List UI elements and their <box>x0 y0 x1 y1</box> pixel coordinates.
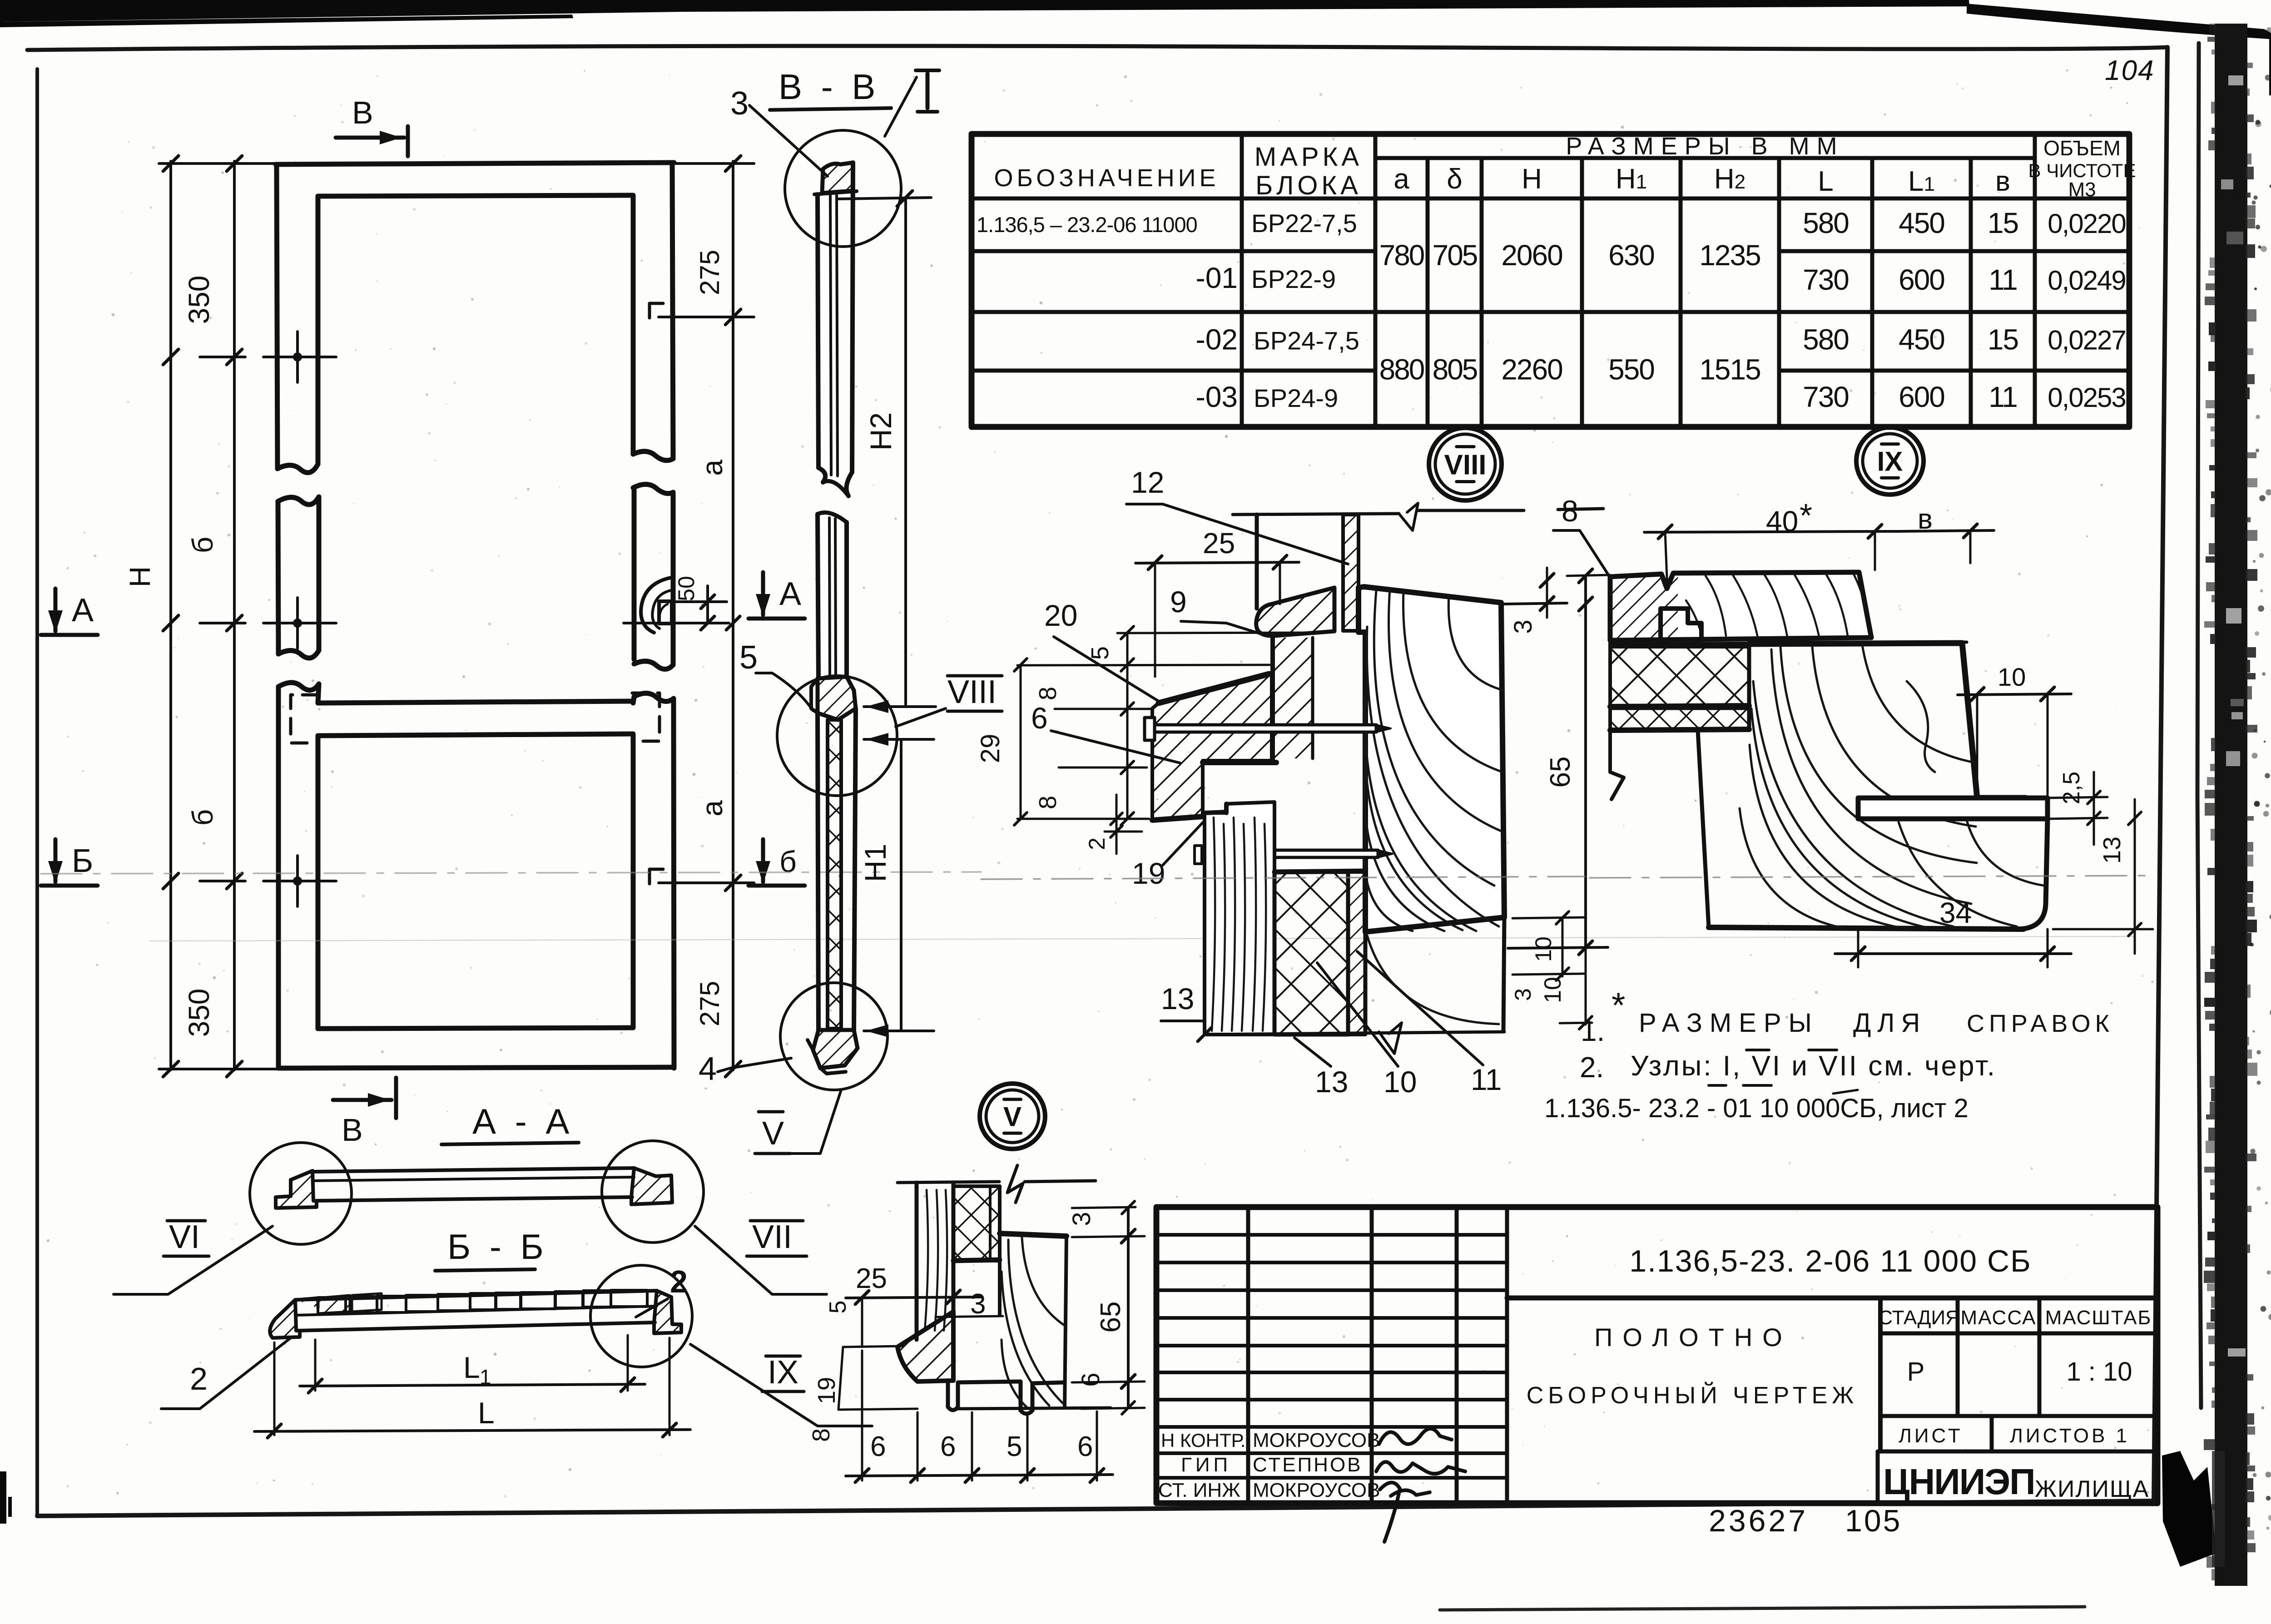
insulation 10 (cross-hatch) <box>1274 872 1348 1035</box>
B-B lower plank profile (after break) <box>818 513 847 522</box>
dim 2,5 <box>2048 797 2107 798</box>
svg-text:10: 10 <box>1998 663 2026 691</box>
middle rail dashed tenons <box>291 695 318 743</box>
svg-text:2: 2 <box>190 1361 208 1396</box>
Б-Б hatched right end <box>654 1291 681 1333</box>
Б-Б hatched left end <box>270 1300 300 1338</box>
main wood block <box>1000 1233 1066 1236</box>
svg-text:a: a <box>1393 163 1409 195</box>
svg-text:104: 104 <box>2105 55 2154 86</box>
insulation cross-hatch block <box>953 1186 1000 1261</box>
svg-text:580: 580 <box>1803 207 1849 239</box>
svg-text:ДЛЯ: ДЛЯ <box>1853 1008 1926 1038</box>
left slot wall <box>1255 515 1259 609</box>
svg-text:5: 5 <box>825 1301 851 1314</box>
step-block detail inside plank <box>1661 609 1701 639</box>
right stile outer edge segments <box>672 163 674 1068</box>
A-A left end block <box>276 1171 317 1208</box>
svg-text:МАРКА: МАРКА <box>1255 142 1363 172</box>
svg-text:25: 25 <box>1203 527 1235 559</box>
svg-text:5: 5 <box>1086 646 1114 660</box>
scan: top black bar <box>0 0 1969 22</box>
svg-text:8: 8 <box>1034 796 1061 809</box>
svg-text:0,0227: 0,0227 <box>2048 325 2126 356</box>
scan: left-bottom edge marks <box>0 1471 6 1524</box>
node VIII circle label <box>1429 428 1502 500</box>
svg-text:3: 3 <box>1510 988 1536 1001</box>
dim extension + 10 bottom-left <box>1567 575 1610 576</box>
B-B upper plank profile <box>818 194 825 482</box>
section marker B top <box>336 136 404 140</box>
lower extension of stile block <box>1365 917 1504 1031</box>
svg-text:2260: 2260 <box>1501 353 1562 386</box>
svg-text:А: А <box>779 576 801 612</box>
svg-text:1.136.5- 23.2 - 01 10 000СБ, л: 1.136.5- 23.2 - 01 10 000СБ, лист 2 <box>1544 1094 1969 1123</box>
svg-text:L: L <box>463 1351 480 1384</box>
label V with leader (bottom of B-B) <box>755 1090 841 1154</box>
svg-text:6: 6 <box>870 1431 886 1462</box>
svg-text:23627: 23627 <box>1709 1504 1808 1538</box>
left dim chain 5/8/29/8/2 <box>1117 633 1317 633</box>
svg-text:1.: 1. <box>1581 1015 1605 1047</box>
left grid rows <box>1156 1233 1507 1237</box>
svg-text:*: * <box>1612 985 1625 1025</box>
scan: bottom separated line <box>1440 1607 2085 1610</box>
A-A detail circles <box>250 1143 352 1244</box>
screw top <box>1145 718 1155 740</box>
svg-text:Н: Н <box>1522 163 1542 195</box>
svg-text:10: 10 <box>1531 936 1556 962</box>
svg-text:МОКРОУСОВ: МОКРОУСОВ <box>1253 1429 1380 1451</box>
svg-text:730: 730 <box>1803 381 1849 413</box>
thin seam under plank <box>1610 642 1967 644</box>
svg-text:6: 6 <box>1031 701 1048 735</box>
svg-text:275: 275 <box>694 981 725 1026</box>
svg-text:1.136,5-23. 2-06 11 000 СБ: 1.136,5-23. 2-06 11 000 СБ <box>1629 1244 2032 1278</box>
svg-text:34: 34 <box>1939 896 1972 929</box>
svg-text:4: 4 <box>699 1051 717 1087</box>
section marker Б left <box>41 884 98 888</box>
H1 dimension <box>864 738 934 741</box>
svg-text:2060: 2060 <box>1501 239 1562 272</box>
svg-text:550: 550 <box>1608 353 1654 386</box>
wedge piece 20 (frame jamb) <box>1152 674 1272 820</box>
svg-text:Н2: Н2 <box>864 412 897 451</box>
svg-text:-03: -03 <box>1196 381 1238 413</box>
svg-text:1235: 1235 <box>1699 239 1760 272</box>
glued panel strip with cross hatch, down to bottom circle <box>828 720 841 1029</box>
lock centreline <box>624 622 729 624</box>
svg-text:10: 10 <box>1383 1065 1417 1099</box>
svg-text:Н КОНТР.: Н КОНТР. <box>1161 1430 1245 1451</box>
section marker A right <box>749 617 805 621</box>
svg-text:350: 350 <box>183 276 215 324</box>
main area: doc number cell <box>1507 1296 2157 1301</box>
TABLE: data table top right <box>972 134 2129 427</box>
svg-text:*: * <box>1800 498 1812 534</box>
svg-text:450: 450 <box>1899 207 1944 239</box>
svg-text:Б - Б: Б - Б <box>447 1227 548 1267</box>
svg-text:H: H <box>124 566 156 587</box>
svg-text:29: 29 <box>976 734 1005 763</box>
svg-text:М3: М3 <box>2068 178 2096 201</box>
svg-text:-01: -01 <box>1196 262 1238 294</box>
svg-text:В ЧИСТОТЕ: В ЧИСТОТЕ <box>2028 160 2136 181</box>
dim L1 <box>314 1340 317 1391</box>
svg-text:СТЕПНОВ: СТЕПНОВ <box>1253 1454 1363 1476</box>
svg-text:600: 600 <box>1899 263 1944 296</box>
door elevation: outer outline <box>276 163 674 164</box>
svg-text:19: 19 <box>1132 857 1165 890</box>
list row <box>1880 1414 2157 1418</box>
screw bottom <box>1203 850 1378 857</box>
small corner brackets in right stile <box>650 303 663 318</box>
svg-text:6: 6 <box>1077 1431 1093 1462</box>
svg-text:a: a <box>696 800 729 817</box>
svg-text:1.136,5 ‒ 23.2-06 11000: 1.136,5 ‒ 23.2-06 11000 <box>977 213 1197 237</box>
svg-text:3: 3 <box>1067 1212 1096 1226</box>
svg-text:6: 6 <box>1076 1372 1105 1386</box>
svg-text:б: б <box>186 809 219 826</box>
svg-text:VII: VII <box>752 1219 792 1255</box>
svg-text:1: 1 <box>480 1365 491 1389</box>
svg-text:СТАДИЯ: СТАДИЯ <box>1878 1307 1960 1329</box>
svg-text:1 : 10: 1 : 10 <box>2066 1357 2132 1386</box>
svg-text:600: 600 <box>1899 381 1944 413</box>
svg-text:ГИП: ГИП <box>1181 1454 1231 1476</box>
svg-text:БЛОКА: БЛОКА <box>1255 171 1362 200</box>
svg-text:65: 65 <box>1545 757 1576 788</box>
lock dome detail on right stile <box>641 578 671 633</box>
svg-text:15: 15 <box>1988 323 2018 356</box>
svg-text:19: 19 <box>813 1377 840 1404</box>
piece 9: rounded cap <box>1256 588 1334 636</box>
dim 65 right (shared with IX) <box>1584 576 1587 947</box>
top plank (architrave) <box>1610 572 1871 640</box>
vertical板 19 (wood strip, vertical grain) <box>1205 802 1274 1035</box>
svg-text:11: 11 <box>1988 381 2017 413</box>
svg-text:ПОЛОТНО: ПОЛОТНО <box>1594 1323 1792 1352</box>
svg-text:11: 11 <box>1988 263 2017 296</box>
svg-text:ЛИСТ: ЛИСТ <box>1899 1425 1963 1447</box>
svg-text:в: в <box>1995 166 2010 197</box>
centre marks on left stile <box>263 356 336 358</box>
svg-text:630: 630 <box>1608 239 1654 272</box>
svg-text:0,0220: 0,0220 <box>2048 208 2126 239</box>
svg-text:СТ. ИНЖ: СТ. ИНЖ <box>1158 1479 1240 1501</box>
label VIII with leader <box>896 674 1002 727</box>
leader from node I to circle <box>885 77 917 136</box>
svg-text:А: А <box>72 592 94 629</box>
svg-text:Узлы: I, VI и VII см. черт.: Узлы: I, VI и VII см. черт. <box>1631 1050 1997 1082</box>
title block outer <box>1156 1207 2157 1503</box>
svg-text:1515: 1515 <box>1699 353 1760 386</box>
left stile break caps <box>278 464 318 473</box>
svg-text:0,0249: 0,0249 <box>2048 265 2126 296</box>
Б-Б bar profile with battens <box>296 1291 657 1300</box>
section marker Б right <box>749 884 805 888</box>
section marker B bottom <box>333 1098 392 1102</box>
bottom base line <box>1205 1032 1504 1035</box>
svg-text:СПРАВОК: СПРАВОК <box>1967 1010 2114 1037</box>
wall wood strip (vertical grain) <box>915 1183 919 1340</box>
svg-text:450: 450 <box>1899 323 1944 356</box>
svg-text:2.: 2. <box>1580 1051 1604 1084</box>
svg-text:3: 3 <box>1508 619 1537 634</box>
svg-text:Р: Р <box>1907 1357 1925 1386</box>
svg-text:МОКРОУСОВ: МОКРОУСОВ <box>1253 1479 1380 1501</box>
svg-text:3: 3 <box>970 1288 986 1320</box>
dim 13 <box>2134 799 2136 954</box>
svg-text:65: 65 <box>1095 1302 1126 1333</box>
svg-text:350: 350 <box>183 989 215 1037</box>
bottom tabs and base line <box>917 1381 1065 1414</box>
svg-text:105: 105 <box>1845 1504 1902 1538</box>
section marker A left <box>41 633 98 637</box>
V top line with break arrow <box>897 1182 999 1183</box>
glazing bead (2) with rounded corner <box>1858 798 2048 819</box>
drawing frame <box>35 69 39 1516</box>
svg-text:2: 2 <box>670 1264 688 1299</box>
scan: bottom-right dark blob <box>2162 1451 2216 1567</box>
svg-text:a: a <box>696 460 729 476</box>
svg-text:L: L <box>478 1396 495 1430</box>
svg-text:2,5: 2,5 <box>2058 772 2085 804</box>
svg-text:МАССА: МАССА <box>1961 1307 2037 1329</box>
svg-text:25: 25 <box>856 1263 887 1294</box>
svg-text:ЦНИИЭП: ЦНИИЭП <box>1883 1461 2035 1502</box>
svg-text:13: 13 <box>2098 837 2126 864</box>
faint axis line across IX <box>1590 876 2153 878</box>
svg-text:РАЗМЕРЫ: РАЗМЕРЫ <box>1639 1008 1819 1038</box>
svg-text:БР24-7,5: БР24-7,5 <box>1254 327 1359 355</box>
firm cell <box>1878 1450 2157 1454</box>
svg-text:50: 50 <box>674 576 699 601</box>
svg-text:Н1: Н1 <box>858 844 892 882</box>
label VI <box>114 1219 273 1294</box>
bottom detail circle (node 4 / V) <box>780 983 888 1090</box>
svg-text:VIII: VIII <box>1444 449 1486 480</box>
door elevation: middle (lock) rail <box>318 701 632 703</box>
right dimension line <box>732 161 734 1070</box>
svg-text:VIII: VIII <box>947 674 997 710</box>
main door-stile block <box>1359 587 1504 932</box>
svg-text:V: V <box>762 1115 784 1152</box>
svg-text:б: б <box>186 537 219 554</box>
svg-text:В: В <box>352 95 373 130</box>
Б-Б right detail circle <box>590 1265 692 1367</box>
door elevation: top rail bottom edge <box>318 195 632 196</box>
pieces inside mid circle <box>818 677 856 720</box>
dim L <box>273 1342 276 1435</box>
label IX + leader <box>690 1344 872 1426</box>
A-A bar profile <box>313 1168 634 1172</box>
dim 3 right top <box>1504 603 1567 604</box>
svg-text:V: V <box>1003 1102 1021 1132</box>
left stile inner edge segments <box>318 196 319 1029</box>
svg-text:5: 5 <box>739 639 758 676</box>
scan: right binding band <box>2197 43 2201 1408</box>
svg-text:6: 6 <box>940 1431 956 1462</box>
svg-text:0,0253: 0,0253 <box>2048 382 2126 413</box>
svg-text:IX: IX <box>1877 446 1903 477</box>
left stile outer edge segments <box>277 164 278 1068</box>
svg-text:В: В <box>342 1112 363 1148</box>
main stile block <box>1749 643 2026 798</box>
svg-text:805: 805 <box>1433 353 1477 386</box>
faint axis line across VIII <box>981 876 1585 879</box>
svg-text:L: L <box>1818 166 1833 197</box>
svg-text:IX: IX <box>768 1354 798 1391</box>
svg-text:8: 8 <box>808 1428 835 1442</box>
svg-text:МАСШТАБ: МАСШТАБ <box>2045 1307 2152 1329</box>
svg-text:780: 780 <box>1379 239 1424 272</box>
svg-text:8: 8 <box>1562 494 1578 528</box>
node V circle label <box>980 1084 1045 1149</box>
top cap: hatched cross-section piece <box>822 163 853 193</box>
detail circle (node 3 / I) top of B-B <box>785 130 901 247</box>
right stile break caps <box>633 451 673 494</box>
nail 12 (vertical hatched pin) <box>1343 515 1359 631</box>
left dimension lines <box>169 161 172 1070</box>
door elevation: bottom rail top edge <box>318 1028 632 1029</box>
left edge with break <box>1610 640 1624 799</box>
H2 dimension <box>838 198 931 199</box>
svg-text:-02: -02 <box>1196 323 1238 356</box>
insulation bands (cross-hatch) <box>1610 647 1749 706</box>
svg-text:VI: VI <box>169 1219 200 1255</box>
svg-text:9: 9 <box>1170 585 1187 619</box>
svg-text:730: 730 <box>1803 263 1849 296</box>
mid detail circle (node 5 / VIII) <box>777 676 897 796</box>
svg-text:13: 13 <box>1161 982 1194 1015</box>
label VII <box>695 1219 827 1294</box>
svg-text:ЛИСТОВ 1: ЛИСТОВ 1 <box>2010 1425 2130 1447</box>
svg-text:ОБОЗНАЧЕНИЕ: ОБОЗНАЧЕНИЕ <box>994 164 1219 192</box>
faint scan lines across elevation <box>41 872 981 874</box>
svg-text:В - В: В - В <box>778 67 880 107</box>
skirting wedge piece <box>897 1312 953 1381</box>
svg-text:БР22-7,5: БР22-7,5 <box>1251 209 1357 238</box>
svg-text:275: 275 <box>694 250 725 295</box>
svg-text:20: 20 <box>1044 599 1077 632</box>
svg-text:15: 15 <box>1988 207 2018 239</box>
dims 10 and 3 bottom right <box>1562 917 1564 976</box>
svg-text:705: 705 <box>1433 239 1477 272</box>
svg-text:3: 3 <box>730 85 749 122</box>
svg-text:δ: δ <box>1447 163 1463 195</box>
node IX circle label <box>1856 427 1924 495</box>
signatures (squiggles) <box>1379 1429 1452 1444</box>
strip 11 <box>1348 872 1365 1035</box>
svg-text:5: 5 <box>1007 1431 1022 1462</box>
left grid verticals <box>1246 1207 1250 1503</box>
right stile inner edge segments <box>633 195 634 1028</box>
svg-text:13: 13 <box>1315 1065 1348 1099</box>
svg-text:2: 2 <box>1084 837 1110 850</box>
Б-Б battens hatch pattern small pieces at left <box>318 1295 350 1313</box>
svg-text:8: 8 <box>1034 687 1061 700</box>
svg-text:БР24-9: БР24-9 <box>1254 384 1338 412</box>
svg-text:ЖИЛИЩА: ЖИЛИЩА <box>2035 1476 2149 1502</box>
svg-text:РАЗМЕРЫ В ММ: РАЗМЕРЫ В ММ <box>1566 133 1844 160</box>
svg-text:б: б <box>779 845 797 878</box>
node mark I (top right of B-B) <box>926 74 930 108</box>
svg-text:БР22-9: БР22-9 <box>1251 265 1336 293</box>
svg-text:10: 10 <box>1540 977 1566 1003</box>
svg-text:ОБЪЕМ: ОБЪЕМ <box>2043 136 2121 160</box>
A-A right end block <box>631 1168 672 1204</box>
svg-text:580: 580 <box>1803 323 1849 356</box>
svg-text:12: 12 <box>1131 465 1164 499</box>
svg-text:11: 11 <box>1471 1063 1502 1096</box>
svg-text:А - А: А - А <box>472 1101 574 1141</box>
stadia/massa/masshtab cells <box>1878 1298 1883 1451</box>
svg-text:СБОРОЧНЫЙ ЧЕРТЕЖ: СБОРОЧНЫЙ ЧЕРТЕЖ <box>1527 1382 1859 1409</box>
svg-text:880: 880 <box>1379 353 1424 386</box>
jamb upper part beside piece 9 <box>1273 638 1313 758</box>
VIII top wall line with break <box>1233 514 1399 515</box>
